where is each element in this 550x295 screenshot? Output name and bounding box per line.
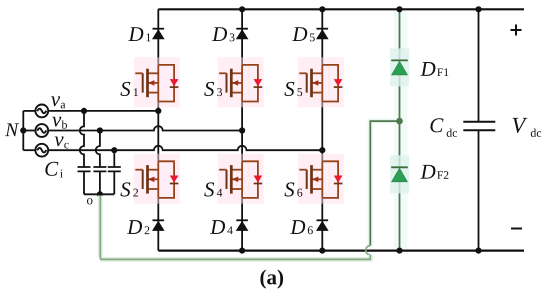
node: phase a tap dot: [81, 108, 87, 114]
label Ci: [45, 162, 62, 178]
wire: positive dc rail (top): [158, 8, 524, 10]
diode D3: [236, 29, 248, 39]
wire: Ci drop a with hops: [80, 111, 84, 194]
capacitor Ci c: [108, 167, 121, 171]
wire: clamp diode leg (green): [394, 9, 408, 250]
label vb: [52, 117, 67, 129]
node o dot: [97, 191, 103, 197]
label Vdc: [513, 118, 541, 137]
wire: Ci drop c: [113, 150, 115, 194]
clamp diode DF2 (green): [390, 155, 409, 193]
node: clamp midpoint dot (green): [396, 118, 403, 125]
node: phase c leg5 dot: [319, 147, 325, 153]
node: bottom rail green leg dot: [396, 248, 402, 254]
diode D1: [153, 29, 165, 39]
label S5: [284, 82, 302, 96]
node: bottom rail cap leg dot: [475, 248, 481, 254]
label D1: [128, 27, 150, 41]
node: phase b tap dot: [97, 127, 103, 133]
node: phase c tap dot: [111, 147, 117, 153]
diode D4: [236, 220, 248, 230]
label D3: [212, 27, 235, 41]
label D2: [127, 220, 149, 234]
capacitor Ci b: [93, 167, 106, 171]
terminal +: [511, 25, 522, 36]
wire: node o bar: [84, 193, 114, 195]
node: bottom rail leg3 dot: [239, 248, 245, 254]
label o: [87, 198, 93, 204]
label va: [51, 96, 65, 108]
source vb (ac source): [23, 124, 48, 137]
mosfet S5: [298, 57, 344, 107]
wire: bridge leg 3 vertical: [241, 9, 243, 250]
label Cdc: [430, 118, 457, 137]
node: top rail green leg dot: [396, 6, 402, 12]
node: phase a leg1 dot: [155, 108, 161, 114]
wire: bridge leg 1 vertical: [157, 9, 159, 250]
wire: green return hop over bottom rail: [366, 246, 371, 255]
wire: green return bottom run: [100, 255, 370, 260]
mosfet S3: [218, 57, 264, 107]
label S4: [204, 182, 222, 196]
wire: clamp midpoint branch (green): [370, 121, 399, 246]
label N: [5, 123, 19, 136]
node: top rail cap leg dot: [475, 6, 481, 12]
node: phase b leg3 dot: [239, 127, 245, 133]
mosfet S2: [134, 154, 180, 204]
caption (a): [260, 270, 283, 289]
mosfet S1: [134, 57, 180, 107]
label vc: [55, 136, 69, 148]
source vc (ac source): [23, 144, 48, 157]
node: top rail leg5 dot: [319, 6, 325, 12]
diode D6: [317, 220, 329, 230]
label DF2: [420, 165, 448, 179]
label S1: [120, 82, 138, 96]
wire: phase a: [48, 110, 158, 112]
label DF1: [420, 62, 448, 76]
wire: Ci drop b with hop: [96, 131, 100, 195]
node: bottom rail leg5 dot: [319, 248, 325, 254]
node N dot: [20, 127, 26, 133]
mosfet S4: [218, 154, 264, 204]
capacitor Ci a: [78, 167, 91, 171]
wire: bridge leg 5 vertical: [321, 9, 323, 250]
wire: phase b with hop over leg1: [48, 126, 242, 130]
wire: phase c with hops over leg1 and leg3: [48, 146, 322, 150]
wire: dc-link capacitor leg: [478, 9, 480, 250]
capacitor Cdc: [463, 122, 495, 130]
label S6: [284, 182, 302, 196]
diode D2: [153, 220, 165, 230]
wire: green return rise to node o: [98, 196, 103, 260]
label D6: [290, 220, 313, 234]
label D5: [292, 27, 315, 41]
label S2: [120, 182, 138, 196]
clamp diode DF1 (green): [390, 48, 409, 86]
wire: neutral bus: [22, 111, 24, 150]
label D4: [210, 220, 233, 234]
label S3: [204, 82, 222, 96]
terminal −: [511, 228, 522, 230]
source va (ac source): [23, 105, 48, 118]
node: top rail leg3 dot: [239, 6, 245, 12]
wire: negative dc rail (bottom): [158, 250, 524, 252]
diode D5: [317, 29, 329, 39]
mosfet S6: [298, 154, 344, 204]
